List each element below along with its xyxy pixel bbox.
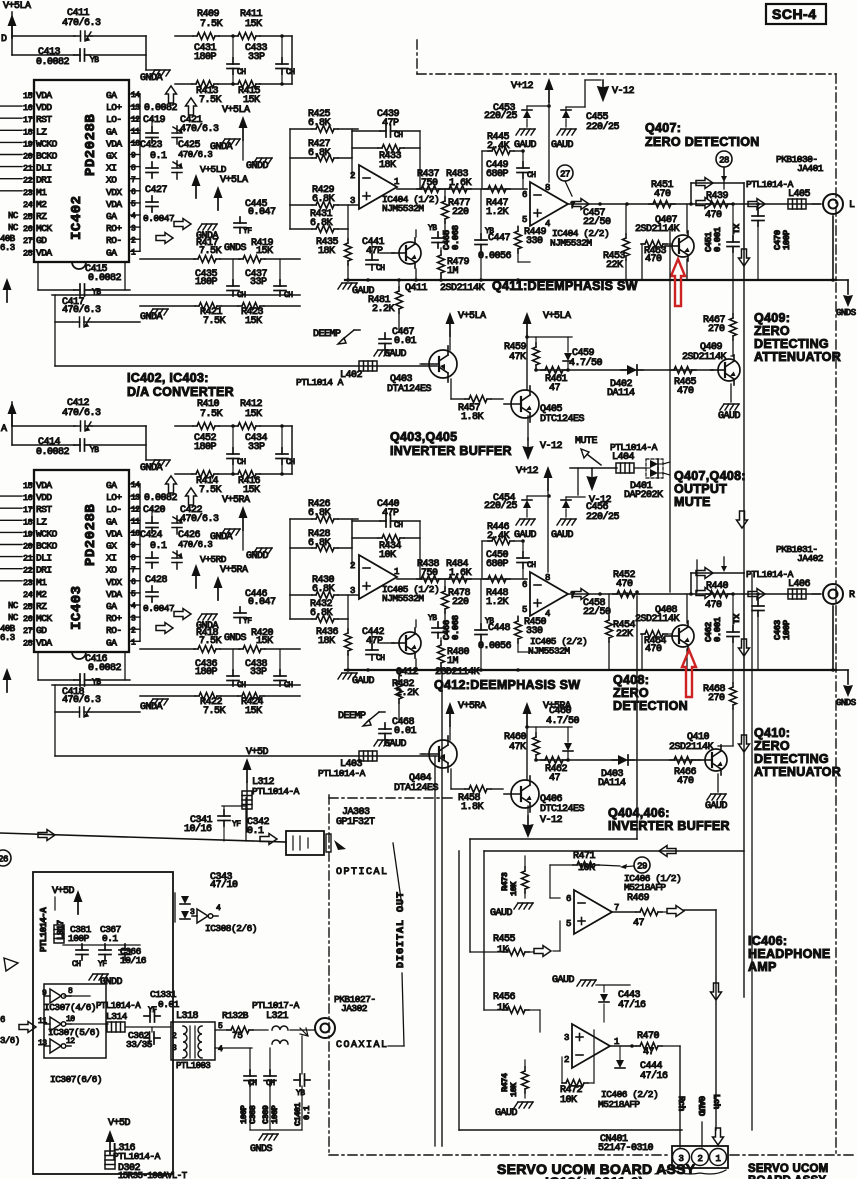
svg-text:RO+: RO+ xyxy=(106,613,122,624)
svg-text:1M: 1M xyxy=(447,656,459,667)
svg-text:GD: GD xyxy=(36,625,47,636)
svg-text:6.8K: 6.8K xyxy=(308,118,331,129)
svg-text:0.01: 0.01 xyxy=(394,336,417,347)
svg-text:NC: NC xyxy=(8,613,19,623)
svg-text:13: 13 xyxy=(131,493,140,502)
svg-text:DA114: DA114 xyxy=(607,388,635,399)
svg-text:4: 4 xyxy=(131,602,136,611)
svg-text:100P: 100P xyxy=(68,933,90,944)
svg-text:10: 10 xyxy=(66,1015,75,1024)
svg-text:OUTPUT: OUTPUT xyxy=(674,482,727,496)
svg-text:JA402: JA402 xyxy=(797,553,824,564)
svg-text:470: 470 xyxy=(677,386,694,397)
svg-text:GNDD: GNDD xyxy=(100,977,123,988)
svg-text:7.5K: 7.5K xyxy=(200,409,223,420)
svg-text:C428: C428 xyxy=(145,575,168,586)
svg-text:DTA124ES: DTA124ES xyxy=(387,384,432,395)
svg-text:26: 26 xyxy=(23,224,33,234)
svg-text:22: 22 xyxy=(23,566,33,576)
svg-text:47: 47 xyxy=(549,773,561,784)
svg-text:13: 13 xyxy=(131,103,140,112)
svg-text:ATTENUATOR: ATTENUATOR xyxy=(754,765,841,779)
svg-text:16: 16 xyxy=(23,103,33,113)
svg-text:0.01: 0.01 xyxy=(158,999,180,1010)
svg-text:IC406:: IC406: xyxy=(748,934,787,948)
svg-text:28: 28 xyxy=(23,638,33,648)
svg-text:DA114: DA114 xyxy=(598,778,626,789)
svg-text:330: 330 xyxy=(526,626,543,637)
svg-text:18K: 18K xyxy=(318,246,335,257)
svg-text:0.0082: 0.0082 xyxy=(88,663,122,674)
svg-text:470: 470 xyxy=(645,644,662,655)
svg-text:2SD2114K: 2SD2114K xyxy=(440,283,485,294)
svg-text:1: 1 xyxy=(394,177,399,187)
svg-text:LZ: LZ xyxy=(36,126,47,137)
svg-text:1: 1 xyxy=(716,1154,721,1164)
svg-text:180P: 180P xyxy=(194,52,217,63)
svg-text:33P: 33P xyxy=(248,442,265,453)
svg-text:47K: 47K xyxy=(509,352,526,363)
svg-text:DLI: DLI xyxy=(36,553,52,564)
svg-text:NC: NC xyxy=(8,601,19,611)
svg-text:10: 10 xyxy=(131,140,140,149)
svg-text:470/6.3: 470/6.3 xyxy=(180,513,219,525)
svg-text:R470: R470 xyxy=(637,1031,660,1042)
svg-text:DEEMP: DEEMP xyxy=(338,711,366,722)
svg-text:20: 20 xyxy=(23,152,33,162)
svg-text:GAUD: GAUD xyxy=(551,530,574,541)
svg-text:6.3: 6.3 xyxy=(0,633,15,643)
svg-text:0.1: 0.1 xyxy=(247,826,264,837)
svg-text:0.1: 0.1 xyxy=(150,151,167,162)
svg-text:NC: NC xyxy=(8,211,19,221)
svg-text:PTL1003: PTL1003 xyxy=(176,1061,210,1071)
svg-text:YB: YB xyxy=(296,1089,305,1098)
svg-text:2: 2 xyxy=(698,1154,703,1164)
svg-text:GNDD: GNDD xyxy=(246,161,269,172)
svg-text:47: 47 xyxy=(549,383,561,394)
svg-text:470/6.3: 470/6.3 xyxy=(62,17,101,29)
svg-text:18: 18 xyxy=(23,127,33,137)
svg-text:VDA: VDA xyxy=(106,589,122,600)
svg-text:GA: GA xyxy=(106,601,117,612)
svg-text:ZERO: ZERO xyxy=(754,324,790,338)
svg-text:7: 7 xyxy=(131,176,136,185)
svg-text:0.068: 0.068 xyxy=(451,615,461,640)
svg-text:CH: CH xyxy=(237,458,246,467)
svg-text:10/16: 10/16 xyxy=(120,955,147,966)
svg-text:XO: XO xyxy=(106,175,117,186)
svg-text:22K: 22K xyxy=(616,629,633,640)
svg-text:33P: 33P xyxy=(250,277,267,288)
svg-text:17: 17 xyxy=(23,505,33,515)
svg-text:14: 14 xyxy=(131,91,140,100)
svg-text:0.0056: 0.0056 xyxy=(478,251,512,262)
svg-text:BOARD ASSY: BOARD ASSY xyxy=(748,1175,826,1179)
svg-text:470: 470 xyxy=(677,776,694,787)
svg-text:SERVO UCOM: SERVO UCOM xyxy=(748,1163,828,1175)
svg-text:BCKO: BCKO xyxy=(36,541,58,552)
svg-text:V-12: V-12 xyxy=(589,495,612,506)
svg-text:23: 23 xyxy=(23,188,33,198)
svg-text:MUTE: MUTE xyxy=(674,495,711,509)
svg-text:1.6K: 1.6K xyxy=(449,568,472,579)
svg-text:R132B: R132B xyxy=(222,1010,249,1021)
svg-text:1: 1 xyxy=(131,249,136,258)
svg-text:27: 27 xyxy=(560,170,570,180)
svg-text:NJM5532M: NJM5532M xyxy=(528,646,570,657)
svg-text:XO: XO xyxy=(106,565,117,576)
svg-text:9: 9 xyxy=(42,989,47,998)
svg-text:GA: GA xyxy=(106,247,117,258)
svg-text:DTC124ES: DTC124ES xyxy=(540,414,585,425)
svg-text:24: 24 xyxy=(23,200,33,210)
svg-text:100P: 100P xyxy=(270,1105,280,1124)
svg-text:Rch: Rch xyxy=(676,1096,686,1111)
svg-text:L321: L321 xyxy=(266,1011,289,1022)
svg-text:15K: 15K xyxy=(256,636,273,647)
svg-text:LO+: LO+ xyxy=(106,102,122,113)
svg-text:0.001: 0.001 xyxy=(713,616,723,642)
svg-text:INVERTER BUFFER: INVERTER BUFFER xyxy=(608,819,730,833)
svg-text:18K: 18K xyxy=(379,160,396,171)
svg-text:8: 8 xyxy=(68,987,73,996)
svg-text:28: 28 xyxy=(23,248,33,258)
svg-text:180P: 180P xyxy=(195,277,218,288)
svg-text:3/6): 3/6) xyxy=(0,1036,20,1046)
svg-text:10K: 10K xyxy=(560,1095,577,1106)
svg-text:220/25: 220/25 xyxy=(586,121,620,133)
svg-text:3: 3 xyxy=(564,1033,569,1043)
svg-text:4.7/50: 4.7/50 xyxy=(569,357,603,369)
svg-text:8: 8 xyxy=(545,573,550,583)
svg-text:V+5D: V+5D xyxy=(52,886,75,897)
svg-text:L: L xyxy=(849,200,855,211)
svg-text:PTL1014-A: PTL1014-A xyxy=(39,907,49,952)
svg-text:470/6.3: 470/6.3 xyxy=(178,150,212,160)
svg-text:COAXIAL: COAXIAL xyxy=(336,1040,389,1051)
svg-text:IC402: IC402 xyxy=(69,195,85,240)
svg-text:15K: 15K xyxy=(245,19,262,30)
svg-text:M5218AFP: M5218AFP xyxy=(598,1099,640,1110)
svg-text:RST: RST xyxy=(36,114,52,125)
svg-text:LZ: LZ xyxy=(36,516,47,527)
svg-text:3: 3 xyxy=(172,1044,177,1053)
svg-text:6.8K: 6.8K xyxy=(308,508,331,519)
svg-text:M2: M2 xyxy=(36,589,47,600)
svg-text:270: 270 xyxy=(708,324,725,335)
svg-text:180P: 180P xyxy=(194,442,217,453)
svg-text:1: 1 xyxy=(394,567,399,577)
svg-text:IC308(2/6): IC308(2/6) xyxy=(205,923,257,934)
svg-text:WCKO: WCKO xyxy=(36,528,58,539)
svg-text:CH: CH xyxy=(72,960,81,969)
svg-text:220: 220 xyxy=(452,597,469,608)
svg-text:YB: YB xyxy=(428,224,437,233)
svg-text:RZ: RZ xyxy=(36,601,47,612)
svg-text:Q411: Q411 xyxy=(405,283,428,294)
svg-text:V+12: V+12 xyxy=(511,81,534,92)
svg-text:5: 5 xyxy=(522,215,527,225)
svg-text:C427: C427 xyxy=(145,185,168,196)
svg-text:15R35-100AVL-T: 15R35-100AVL-T xyxy=(118,1171,188,1179)
svg-text:ATTENUATOR: ATTENUATOR xyxy=(754,350,841,364)
svg-text:CH: CH xyxy=(286,458,295,467)
svg-text:GAUD: GAUD xyxy=(552,975,575,986)
svg-text:8: 8 xyxy=(545,183,550,193)
svg-text:3: 3 xyxy=(190,908,195,917)
svg-text:470: 470 xyxy=(705,210,722,221)
svg-text:OPTICAL: OPTICAL xyxy=(336,867,389,878)
svg-text:47P: 47P xyxy=(366,246,383,257)
svg-text:470: 470 xyxy=(654,189,671,200)
svg-text:15K: 15K xyxy=(245,409,262,420)
svg-text:10K: 10K xyxy=(509,1082,519,1097)
svg-text:680P: 680P xyxy=(486,169,509,180)
svg-text:15: 15 xyxy=(23,481,33,491)
svg-text:6: 6 xyxy=(566,894,571,904)
svg-text:GAUD: GAUD xyxy=(718,411,741,422)
svg-text:470/6.3: 470/6.3 xyxy=(180,123,219,135)
svg-text:IC402, IC403:: IC402, IC403: xyxy=(127,371,209,385)
svg-text:C419: C419 xyxy=(143,115,166,126)
svg-text:HEADPHONE: HEADPHONE xyxy=(748,947,831,961)
svg-text:10K: 10K xyxy=(379,550,396,561)
svg-text:VDD: VDD xyxy=(36,102,52,113)
svg-text:M5218AFP: M5218AFP xyxy=(624,882,666,893)
svg-text:GAUD: GAUD xyxy=(495,1108,518,1119)
svg-text:6.3: 6.3 xyxy=(0,243,15,253)
svg-text:CH: CH xyxy=(527,171,536,180)
svg-text:CH: CH xyxy=(286,68,295,77)
svg-text:7: 7 xyxy=(131,566,136,575)
svg-text:14: 14 xyxy=(131,481,140,490)
svg-text:L314: L314 xyxy=(106,1011,128,1022)
svg-text:Q412:DEEMPHASIS SW: Q412:DEEMPHASIS SW xyxy=(434,678,580,692)
svg-text:V-12: V-12 xyxy=(540,815,563,826)
svg-text:YF: YF xyxy=(243,617,252,626)
svg-text:V+5LA: V+5LA xyxy=(222,105,250,116)
svg-text:M1: M1 xyxy=(36,187,47,198)
svg-text:0.1: 0.1 xyxy=(150,541,167,552)
svg-text:LO-: LO- xyxy=(106,114,122,125)
svg-text:LO+: LO+ xyxy=(106,492,122,503)
svg-text:21: 21 xyxy=(23,164,33,174)
svg-text:YF: YF xyxy=(232,820,241,829)
svg-text:MUTE: MUTE xyxy=(575,436,598,447)
svg-text:23: 23 xyxy=(23,578,33,588)
svg-text:DRI: DRI xyxy=(36,175,52,186)
svg-text:IC307(5/6): IC307(5/6) xyxy=(48,1027,100,1038)
svg-text:10K: 10K xyxy=(509,881,519,896)
svg-text:GNDS: GNDS xyxy=(250,1144,273,1155)
svg-text:27: 27 xyxy=(23,236,33,246)
svg-text:GAUD: GAUD xyxy=(514,530,537,541)
svg-text:47K: 47K xyxy=(509,742,526,753)
svg-text:2: 2 xyxy=(131,236,136,245)
svg-text:VDX: VDX xyxy=(106,577,122,588)
svg-text:M2: M2 xyxy=(36,199,47,210)
svg-text:7.5K: 7.5K xyxy=(199,246,222,257)
svg-text:8: 8 xyxy=(131,164,136,173)
svg-text:11: 11 xyxy=(131,128,140,137)
svg-text:4: 4 xyxy=(131,212,136,221)
svg-text:V+5RA: V+5RA xyxy=(222,495,250,506)
svg-text:RZ: RZ xyxy=(36,211,47,222)
svg-text:2: 2 xyxy=(131,626,136,635)
svg-text:DTA124ES: DTA124ES xyxy=(394,783,439,794)
svg-text:270: 270 xyxy=(708,693,725,704)
svg-text:V+5LD: V+5LD xyxy=(200,164,227,175)
svg-text:6: 6 xyxy=(131,188,136,197)
svg-text:18: 18 xyxy=(23,517,33,527)
svg-text:DEEMP: DEEMP xyxy=(313,329,341,340)
svg-text:C424: C424 xyxy=(140,530,163,541)
svg-text:29: 29 xyxy=(637,862,647,872)
svg-text:Lch: Lch xyxy=(711,1094,721,1109)
svg-text:RO-: RO- xyxy=(106,625,122,636)
svg-text:18K: 18K xyxy=(318,636,335,647)
svg-text:6: 6 xyxy=(131,578,136,587)
svg-text:12: 12 xyxy=(66,1037,75,1046)
svg-text:7.5K: 7.5K xyxy=(199,485,222,496)
svg-text:PTL1014 A: PTL1014 A xyxy=(296,377,344,388)
svg-text:V+5D: V+5D xyxy=(108,1118,131,1129)
svg-text:1.2K: 1.2K xyxy=(486,597,509,608)
svg-text:GAUD: GAUD xyxy=(514,140,537,151)
svg-text:GA: GA xyxy=(106,480,117,491)
svg-text:1.6K: 1.6K xyxy=(449,178,472,189)
svg-text:GAUD: GAUD xyxy=(696,1096,706,1117)
svg-text:0.0082: 0.0082 xyxy=(88,273,122,284)
svg-text:470: 470 xyxy=(616,579,633,590)
svg-text:0.047: 0.047 xyxy=(248,597,276,608)
svg-text:3: 3 xyxy=(131,614,136,623)
svg-text:LO-: LO- xyxy=(106,504,122,515)
svg-text:16: 16 xyxy=(23,493,33,503)
svg-text:DETECTION: DETECTION xyxy=(613,699,688,713)
svg-text:V+5RD: V+5RD xyxy=(200,554,227,565)
svg-text:8: 8 xyxy=(131,554,136,563)
svg-text:22: 22 xyxy=(23,176,33,186)
svg-text:5: 5 xyxy=(566,919,571,929)
svg-text:GA: GA xyxy=(106,90,117,101)
svg-text:RO-: RO- xyxy=(106,235,122,246)
svg-text:VDA: VDA xyxy=(36,90,52,101)
svg-text:ZERO: ZERO xyxy=(613,686,649,700)
svg-text:IC307(6/6): IC307(6/6) xyxy=(50,1074,102,1085)
svg-text:2: 2 xyxy=(564,1055,569,1065)
svg-text:V+5LA: V+5LA xyxy=(3,1,31,12)
svg-text:2SD2114K: 2SD2114K xyxy=(682,352,727,363)
svg-text:NJM5532M: NJM5532M xyxy=(550,238,592,249)
svg-text:25: 25 xyxy=(23,212,33,222)
svg-text:0.0082: 0.0082 xyxy=(36,57,70,68)
svg-text:28: 28 xyxy=(719,156,729,166)
svg-text:47/10: 47/10 xyxy=(210,879,238,891)
svg-text:BCKO: BCKO xyxy=(36,151,58,162)
svg-text:VDA: VDA xyxy=(106,138,122,149)
svg-text:15K: 15K xyxy=(256,246,273,257)
svg-text:10/16: 10/16 xyxy=(184,823,212,835)
svg-text:GD: GD xyxy=(36,235,47,246)
svg-text:V-12: V-12 xyxy=(540,441,563,452)
svg-text:6: 6 xyxy=(522,580,527,590)
svg-text:PTL1014-A: PTL1014-A xyxy=(318,768,366,779)
svg-text:Q411:DEEMPHASIS SW: Q411:DEEMPHASIS SW xyxy=(492,279,638,293)
svg-text:IC307(4/6): IC307(4/6) xyxy=(44,1002,96,1013)
svg-text:0.0082: 0.0082 xyxy=(36,447,70,458)
svg-text:0.0082: 0.0082 xyxy=(144,493,178,504)
svg-text:VDA: VDA xyxy=(36,480,52,491)
svg-text:VDA: VDA xyxy=(106,528,122,539)
svg-text:5: 5 xyxy=(131,200,136,209)
svg-text:GAUD: GAUD xyxy=(551,140,574,151)
svg-text:D/A CONVERTER: D/A CONVERTER xyxy=(127,385,234,399)
svg-text:CH: CH xyxy=(237,68,246,77)
svg-text:C423: C423 xyxy=(140,140,163,151)
svg-text:220/25: 220/25 xyxy=(586,511,620,523)
svg-text:7.5K: 7.5K xyxy=(199,636,222,647)
svg-text:2SD2114K: 2SD2114K xyxy=(635,614,680,625)
svg-text:Q409:: Q409: xyxy=(754,311,790,325)
svg-text:Q403,Q405: Q403,Q405 xyxy=(390,430,457,444)
svg-text:47: 47 xyxy=(633,918,645,929)
svg-text:GAUD: GAUD xyxy=(705,801,728,812)
svg-text:4.7/50: 4.7/50 xyxy=(546,715,580,727)
svg-text:GA: GA xyxy=(106,126,117,137)
svg-text:YB: YB xyxy=(428,614,437,623)
svg-text:VDD: VDD xyxy=(36,492,52,503)
svg-text:RST: RST xyxy=(36,504,52,515)
svg-text:22/50: 22/50 xyxy=(583,606,611,618)
svg-text:ZERO DETECTION: ZERO DETECTION xyxy=(645,135,760,149)
svg-text:GA: GA xyxy=(106,637,117,648)
svg-text:9: 9 xyxy=(131,542,136,551)
svg-text:DAP202K: DAP202K xyxy=(624,490,663,501)
svg-text:VDA: VDA xyxy=(106,199,122,210)
svg-text:470: 470 xyxy=(705,600,722,611)
svg-text:52147-0310: 52147-0310 xyxy=(598,1143,654,1154)
svg-text:GNDA: GNDA xyxy=(140,463,163,474)
svg-text:0.001: 0.001 xyxy=(713,226,723,252)
svg-text:C420: C420 xyxy=(143,505,166,516)
svg-text:1.8K: 1.8K xyxy=(461,412,484,423)
svg-text:2: 2 xyxy=(172,1032,177,1041)
svg-text:11: 11 xyxy=(38,1017,47,1026)
svg-text:AMP: AMP xyxy=(748,960,777,974)
svg-text:0.1: 0.1 xyxy=(102,933,118,944)
svg-text:A: A xyxy=(1,424,7,435)
svg-text:YB: YB xyxy=(90,446,99,455)
svg-text:PTL1014-A: PTL1014-A xyxy=(113,1151,161,1162)
svg-text:12: 12 xyxy=(131,115,140,124)
svg-text:DETECTING: DETECTING xyxy=(754,752,829,766)
svg-text:C448: C448 xyxy=(488,623,511,634)
svg-text:19: 19 xyxy=(23,139,33,149)
svg-text:C453: C453 xyxy=(493,103,516,114)
svg-text:CH: CH xyxy=(527,561,536,570)
svg-text:24: 24 xyxy=(23,590,33,600)
svg-text:26: 26 xyxy=(23,614,33,624)
svg-text:7.5K: 7.5K xyxy=(203,706,226,717)
svg-text:6: 6 xyxy=(0,1015,5,1025)
svg-text:JA401: JA401 xyxy=(797,163,824,174)
svg-text:L318: L318 xyxy=(176,1011,199,1022)
svg-text:20: 20 xyxy=(23,542,33,552)
svg-text:GNDS: GNDS xyxy=(224,633,247,644)
svg-text:V+12: V+12 xyxy=(516,466,539,477)
